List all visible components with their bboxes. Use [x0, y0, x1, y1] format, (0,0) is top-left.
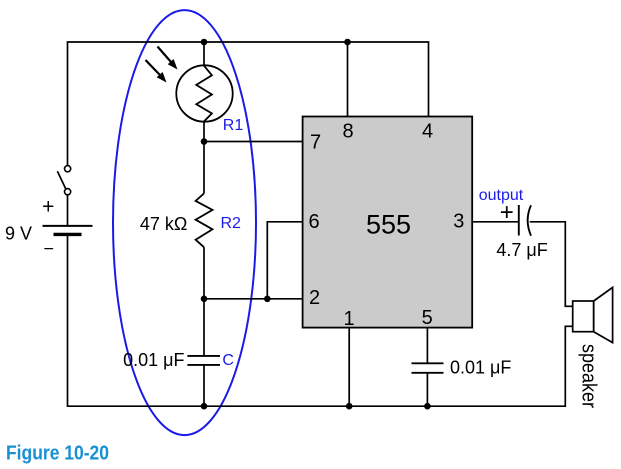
svg-text:−: −	[43, 238, 54, 258]
svg-text:4: 4	[422, 121, 433, 143]
svg-text:Figure 10-20: Figure 10-20	[6, 442, 109, 464]
svg-text:C: C	[222, 352, 234, 369]
svg-text:0.01 μF: 0.01 μF	[450, 357, 511, 377]
svg-text:R1: R1	[223, 117, 244, 134]
svg-text:3: 3	[453, 210, 464, 232]
svg-text:555: 555	[366, 209, 411, 239]
svg-text:4.7 μF: 4.7 μF	[496, 240, 547, 260]
svg-text:2: 2	[309, 287, 320, 309]
svg-text:speaker: speaker	[578, 344, 600, 408]
svg-text:+: +	[42, 196, 54, 219]
svg-text:9 V: 9 V	[5, 224, 32, 244]
svg-text:47 kΩ: 47 kΩ	[140, 214, 187, 234]
svg-text:R2: R2	[220, 215, 241, 232]
svg-text:5: 5	[422, 307, 433, 329]
svg-text:output: output	[479, 187, 524, 204]
svg-text:6: 6	[308, 211, 319, 233]
svg-text:1: 1	[343, 308, 354, 330]
svg-text:7: 7	[310, 131, 321, 153]
svg-text:8: 8	[342, 121, 353, 143]
svg-text:0.01 μF: 0.01 μF	[123, 350, 184, 370]
